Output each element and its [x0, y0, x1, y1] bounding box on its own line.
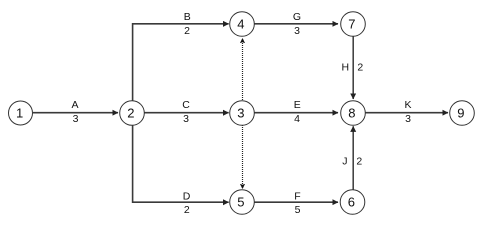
node 4 — [230, 12, 255, 37]
label H/2 — [342, 61, 364, 73]
svg-text:2: 2 — [184, 204, 190, 216]
wire A (1 to 2) — [33, 112, 118, 114]
svg-text:E: E — [294, 99, 301, 111]
svg-text:5: 5 — [237, 195, 244, 210]
wire D (2 down and to 5) — [133, 125, 229, 202]
svg-text:G: G — [293, 11, 301, 23]
svg-text:2: 2 — [357, 61, 363, 73]
svg-text:1: 1 — [16, 106, 23, 121]
wire K (8 to 9) — [366, 112, 449, 114]
svg-text:4: 4 — [237, 17, 244, 32]
wire G (4 to 7) — [255, 23, 339, 25]
svg-text:2: 2 — [356, 156, 362, 168]
svg-text:3: 3 — [294, 25, 300, 37]
node 7 — [341, 12, 366, 37]
svg-text:3: 3 — [237, 106, 244, 121]
node 6 — [340, 190, 365, 215]
svg-text:3: 3 — [405, 113, 411, 125]
svg-text:B: B — [184, 11, 191, 23]
node 2 — [120, 101, 145, 126]
label J/2 — [342, 156, 362, 168]
label G/3 — [293, 11, 301, 37]
label E/4 — [294, 99, 301, 125]
svg-text:D: D — [183, 191, 191, 203]
label K/3 — [404, 99, 411, 125]
svg-text:H: H — [342, 61, 350, 73]
svg-text:5: 5 — [295, 204, 301, 216]
svg-text:3: 3 — [183, 113, 189, 125]
wire H (7 down to 8) — [352, 37, 354, 100]
svg-text:3: 3 — [73, 113, 79, 125]
label D/2 — [183, 191, 191, 217]
node 5 — [230, 190, 255, 215]
label A/3 — [71, 99, 78, 125]
wire F (5 to 6) — [255, 201, 339, 203]
label F/5 — [294, 191, 300, 217]
node 3 — [230, 101, 255, 126]
svg-text:2: 2 — [127, 106, 134, 121]
dummy wire 3 to 4 (dotted) — [242, 39, 244, 101]
wire E (3 to 8) — [255, 112, 339, 114]
svg-text:4: 4 — [294, 113, 300, 125]
svg-text:2: 2 — [184, 25, 190, 37]
wire C (2 to 3) — [145, 112, 229, 114]
svg-text:K: K — [404, 99, 411, 111]
node 9 — [450, 101, 475, 126]
svg-text:F: F — [294, 191, 300, 203]
label B/2 — [184, 11, 191, 37]
dummy wire 3 to 5 (dotted) — [242, 125, 244, 189]
svg-text:6: 6 — [348, 195, 355, 210]
wire J (6 up to 8) — [352, 126, 354, 189]
label C/3 — [182, 99, 190, 125]
wire B (2 up and to 4) — [133, 24, 229, 101]
svg-text:J: J — [342, 156, 347, 168]
svg-text:9: 9 — [457, 106, 464, 121]
node 8 — [341, 101, 366, 126]
svg-text:C: C — [182, 99, 190, 111]
svg-text:A: A — [71, 99, 78, 111]
node 1 — [9, 101, 33, 125]
svg-text:8: 8 — [348, 106, 355, 121]
svg-text:7: 7 — [348, 17, 355, 32]
